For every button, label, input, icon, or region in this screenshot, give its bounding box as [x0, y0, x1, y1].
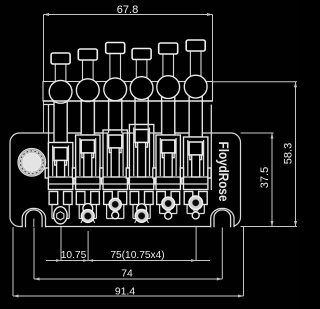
string 4 saddle channel walls	[134, 128, 150, 177]
plate top edge segments	[67, 132, 81, 134]
string 6 side tabs	[180, 168, 183, 178]
string 6 tuner housing	[184, 192, 193, 205]
string 3 saddle body	[103, 130, 127, 190]
string 5 saddle insert	[162, 140, 175, 153]
left arch center line	[33, 219, 35, 228]
svg-text:67.8: 67.8	[117, 4, 138, 16]
string 3 fine tuner screw	[109, 198, 121, 210]
dim 37.5	[241, 133, 274, 227]
svg-text:FloydRose: FloydRose	[216, 142, 232, 202]
svg-text:75(10.75x4): 75(10.75x4)	[110, 250, 164, 261]
string 3 insert collar	[109, 148, 121, 153]
svg-text:91.4: 91.4	[115, 287, 135, 298]
dim 91.4	[13, 227, 244, 296]
string 6 saddle base lines	[184, 177, 208, 184]
string 6 saddle insert	[189, 142, 202, 155]
string 1 side tabs	[45, 168, 48, 178]
string 2 intonation screw	[84, 153, 92, 177]
string 1 tuner housing	[49, 192, 58, 205]
string 6 clamp stem	[189, 97, 202, 137]
dim 67.8 line	[44, 15, 213, 134]
string 2 tuner housing	[76, 192, 85, 205]
string 4 tuner housing	[130, 192, 139, 205]
dim 58.3	[213, 82, 298, 227]
mounting base edges	[48, 105, 50, 191]
dim 67.8 arrows	[44, 13, 213, 16]
string 1 saddle base lines	[48, 177, 72, 184]
string 6 saddle channel walls	[188, 140, 204, 176]
dim 10.75 / 75(10.75x4)	[46, 224, 210, 261]
string 5 insert collar	[162, 153, 174, 158]
string 3 saddle insert	[109, 135, 122, 148]
string 6 saddle body	[184, 137, 208, 190]
string 5 saddle base lines	[156, 177, 180, 184]
string 3 intonation screw	[111, 148, 119, 177]
left arch notch	[22, 208, 45, 227]
svg-text:37.5: 37.5	[259, 167, 271, 188]
string 5 lock screw	[163, 53, 174, 77]
string 1 clamp circle	[49, 80, 72, 103]
string 5 saddle body	[156, 135, 180, 190]
gap screw 1	[74, 172, 81, 185]
clamp bar	[43, 82, 213, 102]
string 3 saddle base lines	[103, 177, 127, 184]
string 6 clamp circle	[184, 75, 207, 98]
string 6 fine tuner screw	[189, 196, 203, 210]
string 2 lock screw	[83, 59, 94, 80]
string 3 tuner housing	[104, 192, 113, 205]
bar bottom ledge overlay	[43, 100, 212, 102]
string 5 clamp circle	[157, 76, 180, 99]
stud hole	[18, 149, 46, 177]
string 6 lock screw	[190, 50, 201, 77]
string 1 lock screw	[55, 63, 66, 82]
string 3 lock screw	[110, 53, 121, 80]
string 4 side tabs	[126, 168, 129, 178]
right arch notch	[211, 208, 234, 227]
string 5 saddle channel walls	[160, 138, 176, 176]
baseplate outline	[10, 133, 241, 227]
string 2 saddle body	[76, 135, 100, 190]
string 3 side tabs	[100, 168, 103, 178]
string 6 intonation screw	[192, 155, 200, 177]
dim 74	[34, 218, 222, 279]
string 2 clamp stem	[81, 100, 94, 135]
string 3 clamp circle	[104, 78, 127, 101]
gap screw 2	[101, 172, 108, 185]
string 4 insert collar	[136, 143, 148, 148]
string 2 saddle base lines	[76, 177, 100, 184]
gap screw 3	[128, 172, 135, 185]
string 2 saddle insert	[81, 140, 94, 153]
string 2 side tabs	[72, 168, 75, 178]
svg-text:74: 74	[121, 269, 133, 280]
string 1 clamp stem	[54, 102, 67, 143]
string 5 tuner housing	[157, 192, 166, 205]
string 5 side tabs	[153, 168, 156, 178]
string 2 saddle channel walls	[80, 138, 96, 176]
svg-text:10.75: 10.75	[61, 250, 87, 261]
string 4 clamp stem	[135, 98, 148, 124]
string 4 intonation screw	[138, 143, 146, 178]
string 4 lock screw	[136, 59, 147, 79]
string 2 clamp circle	[76, 79, 99, 102]
string 2 insert collar	[82, 153, 94, 158]
string 1 saddle body	[48, 143, 72, 190]
string 3 saddle channel walls	[107, 133, 123, 176]
string 1 intonation screw	[57, 161, 65, 178]
string 3 clamp stem	[109, 99, 122, 130]
gap screw 5	[182, 172, 189, 185]
string 5 fine tuner screw	[162, 197, 175, 210]
string 4 saddle base lines	[129, 177, 153, 184]
gap screw 4	[155, 172, 162, 185]
string 4 saddle insert	[135, 130, 148, 143]
string 4 clamp circle	[130, 77, 153, 100]
string 5 intonation screw	[164, 153, 172, 177]
string 1 saddle insert	[54, 148, 67, 161]
string 1 insert collar	[55, 161, 67, 166]
string 5 clamp stem	[162, 97, 175, 135]
string 1 fine tuner screw	[54, 207, 67, 224]
string 4 saddle body	[129, 125, 153, 190]
string 2 fine tuner screw	[81, 219, 95, 223]
string 6 insert collar	[190, 155, 202, 160]
string 4 fine tuner screw	[135, 219, 149, 223]
svg-text:58.3: 58.3	[283, 143, 295, 164]
string 1 saddle channel walls	[53, 146, 69, 177]
